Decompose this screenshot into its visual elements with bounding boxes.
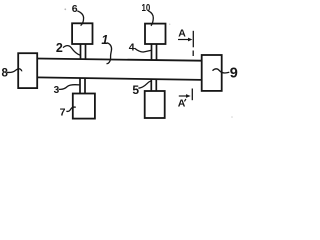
- svg-text:2: 2: [56, 41, 63, 55]
- svg-text:A: A: [178, 97, 186, 109]
- svg-text:4: 4: [129, 42, 135, 54]
- svg-text:6: 6: [72, 3, 78, 15]
- svg-text:5: 5: [132, 83, 139, 97]
- svg-text:3: 3: [54, 85, 60, 96]
- svg-text:10: 10: [142, 2, 151, 14]
- svg-text:8: 8: [2, 68, 9, 80]
- svg-text:7: 7: [60, 107, 66, 119]
- svg-text:9: 9: [230, 66, 238, 82]
- svg-text:1: 1: [101, 33, 108, 47]
- svg-text:A: A: [178, 27, 186, 39]
